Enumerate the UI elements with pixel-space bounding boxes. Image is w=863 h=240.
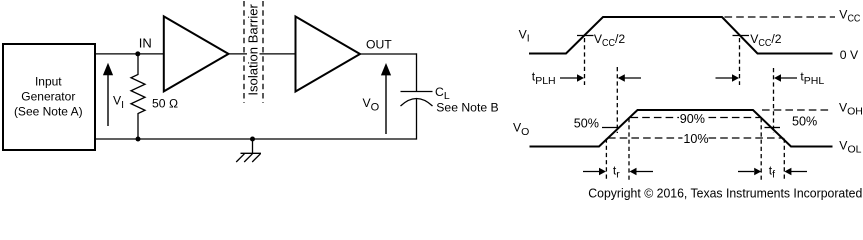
svg-text:VOL: VOL: [839, 139, 861, 156]
wire output branch down to capacitor: [416, 53, 418, 91]
svg-text:VO: VO: [513, 120, 529, 137]
svg-text:VOH: VOH: [839, 100, 863, 117]
VI waveform trace: [529, 17, 833, 54]
svg-text:VCC/2: VCC/2: [594, 32, 626, 49]
svg-text:OUT: OUT: [366, 37, 392, 51]
tr arrow left: [630, 168, 654, 176]
junction dot resistor-bottom: [136, 137, 141, 142]
svg-text:tPLH: tPLH: [532, 70, 556, 88]
dashed vertical tf right 10%: [783, 139, 785, 182]
svg-text:Isolation Barrier: Isolation Barrier: [246, 3, 261, 95]
tick 50% rising: [602, 127, 619, 129]
svg-text:90%: 90%: [680, 112, 705, 126]
dashed vertical VI falling VCC/2: [739, 38, 741, 85]
svg-text:CL: CL: [435, 85, 450, 102]
tPHL arrow right: [716, 74, 740, 82]
svg-text:Input: Input: [35, 74, 62, 88]
svg-text:0 V: 0 V: [840, 48, 859, 62]
VOH level dashed line: [762, 109, 832, 111]
junction dot ground node: [250, 137, 255, 142]
svg-text:Copyright © 2016, Texas Instru: Copyright © 2016, Texas Instruments Inco…: [588, 185, 862, 200]
tPLH arrow right: [560, 74, 584, 82]
tick 50% falling: [765, 127, 781, 129]
svg-text:50 Ω: 50 Ω: [152, 97, 178, 111]
wire U2 to output branch: [360, 53, 417, 55]
svg-text:VI: VI: [113, 94, 124, 111]
ground symbol: [236, 139, 261, 162]
svg-text:50%: 50%: [792, 115, 817, 129]
tPHL arrow left: [774, 74, 797, 82]
tf arrow right: [738, 168, 761, 176]
svg-text:(See Note A): (See Note A): [14, 104, 83, 118]
svg-text:VO: VO: [363, 96, 380, 113]
isolation barrier dashed line left: [243, 1, 245, 103]
dashed vertical VO rising 50%: [616, 67, 618, 133]
svg-text:See Note B: See Note B: [436, 101, 498, 115]
wire barrier to U2: [260, 53, 296, 55]
wire box to IN node: [96, 53, 164, 55]
dashed 10% level line right segment: [709, 137, 784, 139]
tick VCC/2 falling: [733, 35, 750, 37]
dashed vertical tf left 90%: [760, 118, 762, 181]
dashed vertical tr right 90%: [628, 118, 630, 181]
dashed 90% level line left segment: [631, 117, 680, 119]
op-amp buffer U2: [296, 17, 361, 92]
isolation barrier dashed line right: [262, 1, 264, 103]
wire U1 to barrier: [229, 53, 248, 55]
arrow VI: [103, 63, 113, 126]
svg-text:IN: IN: [139, 36, 152, 51]
tf arrow left: [784, 168, 807, 176]
VO waveform trace: [530, 110, 833, 147]
tPLH arrow left: [618, 74, 641, 82]
svg-text:50%: 50%: [574, 116, 599, 130]
svg-text:VI: VI: [519, 27, 530, 44]
arrow VO: [381, 63, 391, 134]
svg-text:tr: tr: [613, 164, 620, 181]
dashed vertical VO falling 50%: [773, 68, 775, 133]
bottom wire (ground rail): [96, 138, 417, 140]
svg-text:tf: tf: [769, 164, 775, 181]
svg-text:10%: 10%: [683, 132, 708, 146]
dashed vertical VI rising VCC/2: [584, 38, 586, 85]
op-amp buffer U1: [164, 16, 229, 91]
svg-text:Generator: Generator: [21, 89, 75, 103]
VCC level dashed line: [725, 16, 836, 18]
tick VCC/2 rising: [577, 35, 594, 37]
dashed 10% level line left segment: [608, 137, 683, 139]
svg-text:VCC/2: VCC/2: [750, 32, 782, 49]
svg-text:VCC: VCC: [839, 8, 860, 25]
dashed vertical tr left 10%: [605, 139, 607, 182]
svg-text:tPHL: tPHL: [800, 70, 824, 88]
node IN junction dot: [135, 51, 140, 56]
capacitor CL: [401, 92, 433, 140]
tr arrow right: [583, 168, 606, 176]
dashed 90% level line right segment: [709, 117, 761, 119]
resistor 50 ohm: [131, 56, 145, 139]
input generator box: [3, 44, 95, 150]
